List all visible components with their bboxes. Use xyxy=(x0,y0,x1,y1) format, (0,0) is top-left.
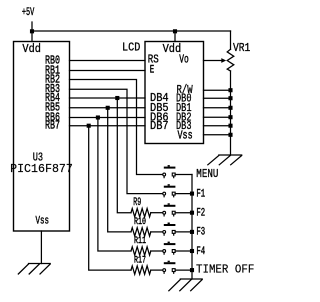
ground upper right xyxy=(208,155,242,165)
wire RB7 branch to R17 xyxy=(89,126,131,270)
potentiometer VR1 zigzag xyxy=(227,49,234,71)
wire LCD R/W to right bus xyxy=(204,89,231,91)
switch SW F3 xyxy=(163,223,176,236)
IC U3 PIC16F877 box xyxy=(14,42,70,232)
svg-text:PIC16F877: PIC16F877 xyxy=(10,162,73,176)
wire RB4 to LCD DB4 xyxy=(70,97,146,99)
IC U3 labels xyxy=(10,42,73,228)
wire R17 to TIMER OFF switch xyxy=(151,269,163,271)
wire F3 switch to bus xyxy=(175,231,192,233)
switch SW F4 xyxy=(163,242,176,255)
wire rail to PIC Vdd xyxy=(31,31,33,42)
label R9 xyxy=(133,197,141,209)
node F1 junction xyxy=(190,192,194,196)
LCD module box xyxy=(145,42,204,144)
svg-text:+5V: +5V xyxy=(22,7,35,19)
svg-text:VR1: VR1 xyxy=(233,41,250,55)
svg-text:E: E xyxy=(150,64,155,76)
ground PIC xyxy=(18,264,50,275)
wire F4 switch to bus xyxy=(175,250,192,252)
svg-text:DB7: DB7 xyxy=(150,119,169,133)
svg-text:R10: R10 xyxy=(134,217,146,228)
wire LCD Vss to right bus xyxy=(204,134,231,136)
resistor R9 xyxy=(131,209,151,217)
node RB6 junction xyxy=(96,115,100,119)
node junction +5V to PIC xyxy=(30,29,34,33)
svg-text:R17: R17 xyxy=(134,255,146,266)
wire top rail xyxy=(32,30,231,32)
wire F1 switch to bus xyxy=(175,193,192,195)
svg-text:F3: F3 xyxy=(196,227,205,239)
node DB3 junction xyxy=(228,124,232,128)
wire RB4 branch to R9 xyxy=(117,98,131,213)
node RB4 junction xyxy=(115,96,119,100)
wire RB3 to F1 switch xyxy=(70,89,163,193)
wire rail down to VR1 xyxy=(230,31,232,49)
label F4 xyxy=(196,246,205,258)
wire rail to LCD Vdd xyxy=(174,31,176,42)
wire F2 switch to bus xyxy=(175,212,192,214)
wire TIMER OFF switch to bus xyxy=(175,269,192,271)
svg-text:LCD: LCD xyxy=(122,40,140,54)
wire RB0 to LCD RS xyxy=(70,60,146,62)
switch SW F1 xyxy=(163,184,176,197)
svg-text:MENU: MENU xyxy=(196,167,218,181)
svg-text:Vss: Vss xyxy=(36,216,50,228)
switch SW F2 xyxy=(163,203,176,216)
ground bus of switches xyxy=(191,175,193,280)
node R/W junction xyxy=(228,88,232,92)
wire VR1 bottom to upper ground xyxy=(230,71,232,155)
resistor R11 xyxy=(131,247,151,255)
wire +5V stem xyxy=(31,22,33,31)
VR1 label xyxy=(233,41,250,55)
wire RB1 to LCD E xyxy=(70,70,146,72)
wire RB2 to MENU switch xyxy=(70,80,163,175)
wire RB7 to LCD DB7 xyxy=(70,125,146,127)
wire PIC Vss down xyxy=(40,231,42,264)
resistor R17 xyxy=(131,266,151,274)
svg-text:R9: R9 xyxy=(133,197,141,209)
node F3 junction xyxy=(190,230,194,234)
wire RB5 branch to R10 xyxy=(108,108,131,232)
VR1 wiper arrowhead xyxy=(221,58,226,63)
wire LCD DB0 to right bus xyxy=(204,97,231,99)
svg-text:TIMER OFF: TIMER OFF xyxy=(196,263,254,277)
LCD pin labels xyxy=(148,42,193,142)
svg-text:Vo: Vo xyxy=(179,53,189,67)
svg-text:Vdd: Vdd xyxy=(22,42,41,56)
node F2 junction xyxy=(190,211,194,215)
wire RB6 to LCD DB6 xyxy=(70,117,146,119)
label MENU xyxy=(196,167,218,181)
node F4 junction xyxy=(190,249,194,253)
node TIMER OFF junction xyxy=(190,268,194,272)
svg-text:F4: F4 xyxy=(196,246,205,258)
label R17 xyxy=(134,255,146,266)
svg-text:Vss: Vss xyxy=(178,128,193,142)
node RB5 junction xyxy=(106,106,110,110)
svg-text:F1: F1 xyxy=(196,188,205,200)
wire MENU switch to bus xyxy=(175,174,192,176)
node DB2 junction xyxy=(228,115,232,119)
node RB7 junction xyxy=(87,124,91,128)
svg-text:RB7: RB7 xyxy=(45,119,60,133)
wire R10 to F3 switch xyxy=(151,231,163,233)
svg-text:F2: F2 xyxy=(196,208,205,220)
wire LCD Vo to VR1 wiper xyxy=(204,60,222,62)
resistor R10 xyxy=(131,228,151,236)
label TIMER OFF xyxy=(196,263,254,277)
svg-text:R11: R11 xyxy=(134,236,146,247)
wire LCD DB3 to right bus xyxy=(204,125,231,127)
wire RB6 branch to R11 xyxy=(98,118,131,252)
label F2 xyxy=(196,208,205,220)
LCD label xyxy=(122,40,140,54)
label F3 xyxy=(196,227,205,239)
node DB1 junction xyxy=(228,106,232,110)
wire R11 to F4 switch xyxy=(151,250,163,252)
node junction rail to LCD xyxy=(173,29,177,33)
ground bottom xyxy=(169,279,202,291)
wire RB5 to LCD DB5 xyxy=(70,107,146,109)
label R11 xyxy=(134,236,146,247)
wire R9 to F2 switch xyxy=(151,212,163,214)
label R10 xyxy=(134,217,146,228)
switch SW TIMER OFF xyxy=(163,261,176,274)
wire LCD DB2 to right bus xyxy=(204,116,231,118)
node Vss junction xyxy=(228,133,232,137)
switch SW MENU xyxy=(163,165,176,178)
node DB0 junction xyxy=(228,96,232,100)
wire LCD DB1 to right bus xyxy=(204,107,231,109)
label F1 xyxy=(196,188,205,200)
